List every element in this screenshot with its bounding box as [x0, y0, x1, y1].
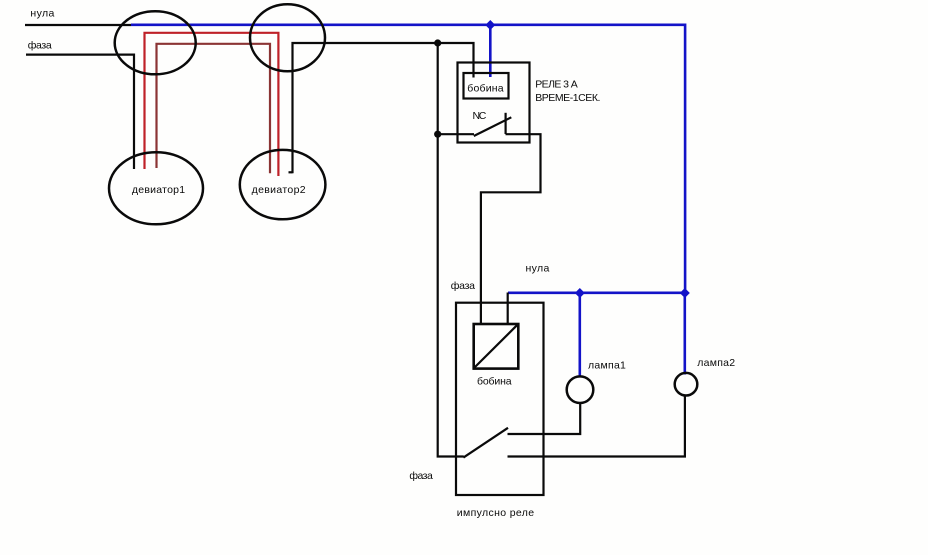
svg-text:РЕЛЕ 3 А: РЕЛЕ 3 А — [535, 79, 578, 91]
svg-text:ВРЕМЕ-1СЕК.: ВРЕМЕ-1СЕК. — [535, 92, 600, 104]
svg-text:девиатор1: девиатор1 — [132, 184, 185, 196]
svg-text:фаза: фаза — [409, 470, 433, 482]
svg-text:нула: нула — [526, 262, 550, 274]
svg-text:NC: NC — [473, 110, 487, 122]
svg-text:лампа2: лампа2 — [697, 357, 735, 369]
svg-text:бобина: бобина — [467, 82, 503, 94]
svg-text:фаза: фаза — [28, 40, 52, 52]
svg-text:импулсно реле: импулсно реле — [457, 507, 534, 519]
svg-text:фаза: фаза — [451, 280, 475, 292]
svg-text:лампа1: лампа1 — [588, 359, 626, 371]
svg-text:бобина: бобина — [477, 375, 512, 387]
svg-text:нула: нула — [30, 8, 54, 20]
svg-text:девиатор2: девиатор2 — [252, 184, 306, 196]
